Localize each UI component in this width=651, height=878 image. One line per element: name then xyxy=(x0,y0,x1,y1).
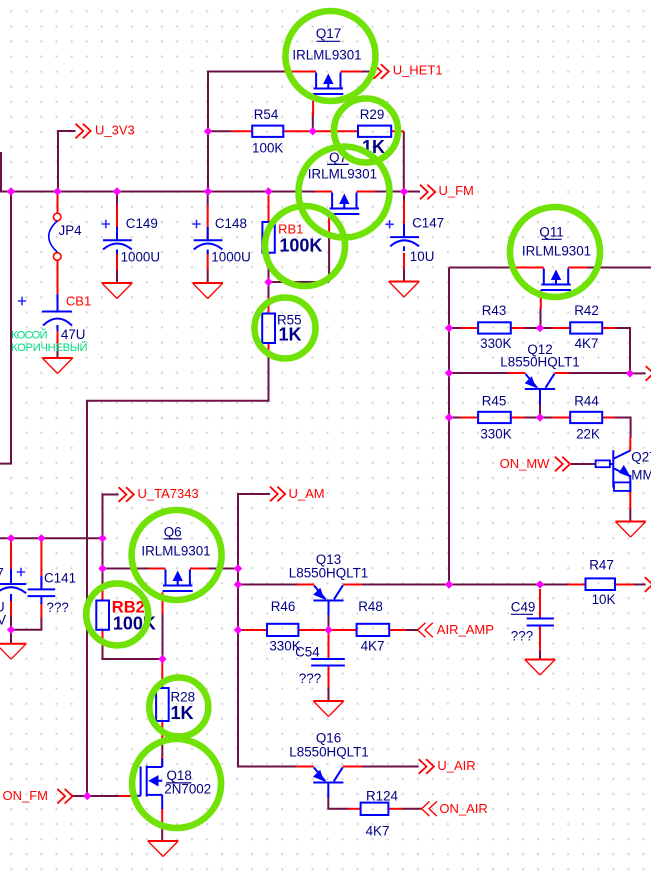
pin C141 top xyxy=(40,542,42,589)
capacitor C147 xyxy=(390,237,419,246)
wire left cap ground lead xyxy=(10,630,12,644)
svg-text:Q27: Q27 xyxy=(631,450,651,465)
svg-text:AIR_AMP: AIR_AMP xyxy=(437,622,494,637)
wire R45 right to mid junction xyxy=(524,417,540,419)
wire Q6 gate down to R28 xyxy=(162,613,164,663)
wire R42 left stub xyxy=(540,327,553,329)
node R43-R42 xyxy=(536,324,544,332)
pin R43 left xyxy=(460,327,478,329)
node Q12-collector xyxy=(626,369,634,377)
pin CB1 bottom xyxy=(57,330,59,346)
pin Q18 gate lead xyxy=(119,795,134,797)
svg-text:R48: R48 xyxy=(358,599,383,614)
node bus-RB1 xyxy=(264,187,272,195)
svg-text:RB1: RB1 xyxy=(278,222,303,237)
pin R54 left xyxy=(231,130,252,132)
pin R47 left xyxy=(568,584,586,586)
pin Q27 emitter lower xyxy=(629,492,631,509)
svg-text:10U: 10U xyxy=(410,249,435,264)
resistor R44 xyxy=(570,412,602,423)
port chevron U_TA7343 xyxy=(119,487,134,502)
svg-text:V: V xyxy=(0,613,6,628)
pin Q6 source xyxy=(148,568,166,570)
svg-text:330K: 330K xyxy=(480,336,511,351)
resistor R29 xyxy=(358,126,391,137)
svg-text:R47: R47 xyxy=(589,557,614,572)
svg-text:C49: C49 xyxy=(511,599,536,614)
resistor R55 xyxy=(262,314,275,344)
wire RB2 bottom to Q6 gate column xyxy=(103,645,163,659)
pin R48 right xyxy=(389,629,406,631)
wire R44 left stub xyxy=(540,417,553,419)
wire C148 top stub xyxy=(207,192,209,207)
annotation circle RB2 xyxy=(86,583,148,645)
mosfet Q18 xyxy=(134,758,162,809)
svg-text:R124: R124 xyxy=(366,788,399,803)
svg-text:ON_AIR: ON_AIR xyxy=(439,801,487,816)
transistor Q16 xyxy=(313,767,343,797)
wire U_3V3 tap xyxy=(58,131,76,192)
node rail-C141 xyxy=(37,534,45,542)
wire left edge stub xyxy=(0,152,2,192)
svg-text:КОРИЧНЕВЫЙ: КОРИЧНЕВЫЙ xyxy=(11,341,88,354)
svg-text:???: ??? xyxy=(511,628,533,643)
pin Q11 source xyxy=(510,267,544,269)
wire R43 left stub xyxy=(449,327,461,329)
port chevron ON_AIR xyxy=(422,802,437,817)
wire C148 bottom to ground xyxy=(207,269,209,283)
ground Q18 xyxy=(148,841,178,857)
svg-text:U_AM: U_AM xyxy=(289,486,325,501)
svg-text:C54: C54 xyxy=(295,644,320,659)
svg-text:Q6: Q6 xyxy=(164,525,182,540)
pin Q11 gate xyxy=(540,290,542,309)
pin Q7 drain xyxy=(357,191,376,193)
port chevron AIR_AMP xyxy=(418,623,433,638)
resistor RB2 xyxy=(96,601,109,630)
node rail-RB2col xyxy=(98,534,106,542)
pin Q7 gate xyxy=(328,214,330,234)
wire Q7 drain to U_FM junction xyxy=(374,191,404,193)
wire Q12 collector row to edge chevron xyxy=(630,372,646,374)
pin Q7 source xyxy=(315,191,332,193)
svg-text:IRLML9301: IRLML9301 xyxy=(141,544,210,559)
pin C49 bottom xyxy=(539,626,541,652)
node bus-C149 xyxy=(113,187,121,195)
pin Q12 collector xyxy=(555,372,570,374)
svg-text:22K: 22K xyxy=(576,426,600,441)
wire R43 right to mid junction xyxy=(524,327,540,329)
capacitor CB1 plus xyxy=(18,297,26,305)
pin R42 right xyxy=(602,327,615,329)
capacitor C148 plus xyxy=(192,220,200,228)
wire C147 bottom to ground xyxy=(403,268,405,282)
wire right bus column xyxy=(448,268,450,585)
wire C149 bottom to ground xyxy=(116,269,118,283)
node ON_FM xyxy=(83,792,91,800)
ground C149 xyxy=(102,283,132,299)
pin C148 top xyxy=(207,205,209,240)
annotation circle Q17 xyxy=(286,11,376,101)
svg-text:1K: 1K xyxy=(279,324,302,344)
pin C149 top xyxy=(116,205,118,240)
node Q13-emitter xyxy=(234,580,242,588)
wire Q16 collector to U_AIR xyxy=(361,766,419,768)
pin left cut cap top xyxy=(10,540,12,570)
transistor Q13 xyxy=(313,585,343,615)
wire R29 right corner down to U_FM junction xyxy=(403,131,405,191)
svg-text:U_FM: U_FM xyxy=(439,183,474,198)
pin C147 bottom xyxy=(403,253,405,269)
node R54-R29 xyxy=(309,127,317,135)
wire RB1 bottom to R55 top junction row xyxy=(269,267,330,298)
svg-text:IRLML9301: IRLML9301 xyxy=(308,166,377,181)
svg-text:???: ??? xyxy=(299,671,321,686)
wire Q17 gate down to R54-R29 junction xyxy=(312,112,314,131)
pin C147 top xyxy=(403,200,405,237)
node R45-left xyxy=(445,413,453,421)
node leftcaps-bottom xyxy=(7,626,15,634)
svg-text:100K: 100K xyxy=(252,140,283,155)
wire Q12 emitter row from column xyxy=(449,372,509,374)
node Q6-source xyxy=(98,564,106,572)
wire Q13 emitter row from column xyxy=(238,584,298,586)
port chevron U_AIR xyxy=(419,759,434,774)
wire Q17 drain to U_HET1 xyxy=(343,71,374,73)
wire Q6 drain to U_AM column xyxy=(208,568,238,570)
svg-text:ON_MW: ON_MW xyxy=(500,456,551,471)
pin R54 right / R29 left xyxy=(283,130,358,132)
wire U_FM junction to chevron xyxy=(404,191,420,193)
resistor R48 xyxy=(357,624,390,636)
svg-text:IRLML9301: IRLML9301 xyxy=(292,48,361,63)
node R43-left xyxy=(445,324,453,332)
svg-text:4K7: 4K7 xyxy=(575,336,599,351)
resistor R124 xyxy=(361,803,389,815)
svg-text:U_TA7343: U_TA7343 xyxy=(138,486,199,501)
pin R45 right xyxy=(511,417,525,419)
wire R45 left stub xyxy=(449,417,461,419)
node R46-left xyxy=(234,626,242,634)
resistor R54 xyxy=(252,126,283,137)
capacitor C141 xyxy=(28,589,56,604)
wire Q13 base to R46 row xyxy=(328,614,330,630)
wire Q18 source to ground xyxy=(161,824,163,841)
node bus-left xyxy=(7,187,15,195)
svg-text:C149: C149 xyxy=(126,216,158,231)
wire C54 lower to ground xyxy=(328,686,330,701)
wire Q7 gate down xyxy=(328,232,330,282)
capacitor C147 plus xyxy=(385,220,393,228)
annotation circle Q18 xyxy=(132,739,221,828)
resistor R46 xyxy=(267,624,298,636)
node RB1-R55 xyxy=(264,278,272,286)
svg-text:2N7002: 2N7002 xyxy=(164,782,211,797)
wire left rail xyxy=(0,537,103,539)
wire C49 lower to ground xyxy=(539,650,541,660)
wire R54 left xyxy=(208,130,231,132)
wire CB1 bottom to ground xyxy=(57,345,59,358)
wire Q6 source from rail junction xyxy=(103,568,149,570)
resistor R45 xyxy=(478,412,511,423)
pin Q18 source xyxy=(161,808,163,825)
wire left cap top stub xyxy=(10,538,12,543)
pin Q17 drain xyxy=(341,71,363,73)
node Q12-emitter xyxy=(445,369,453,377)
pin R44 right xyxy=(602,417,615,419)
node bus-C148 xyxy=(204,187,212,195)
svg-text:R42: R42 xyxy=(574,303,599,318)
capacitor C54 xyxy=(311,659,345,666)
node R45-R44 xyxy=(536,413,544,421)
pin Q16 collector xyxy=(343,766,362,768)
CIRCLES xyxy=(86,11,600,828)
pin RB1 top xyxy=(268,196,270,223)
svg-text:100K: 100K xyxy=(279,235,322,255)
wire R46 left stub xyxy=(238,629,245,631)
wire R44 right corner down to Q27 collector xyxy=(614,418,630,439)
capacitor C148 xyxy=(194,240,223,249)
mosfet Q6 xyxy=(163,570,193,592)
wire C141 top stub xyxy=(40,538,42,543)
annotation circle Q11 xyxy=(510,207,600,297)
pin C54 bottom xyxy=(328,666,330,688)
svg-text:U_HET1: U_HET1 xyxy=(393,63,443,78)
pin R47 right xyxy=(615,584,634,586)
pin C49 top xyxy=(539,589,541,619)
wire R124 right to ON_AIR xyxy=(401,808,422,810)
ground Q27 xyxy=(615,522,645,538)
capacitor CB1 xyxy=(42,294,72,331)
ground C147 xyxy=(389,282,419,298)
jumper JP4 xyxy=(53,213,61,260)
resistor RB1 xyxy=(262,222,274,253)
wire C141 bottom corner xyxy=(11,617,41,630)
transistor Q27 xyxy=(596,450,631,492)
svg-text:330K: 330K xyxy=(480,426,511,441)
svg-text:CB1: CB1 xyxy=(66,294,91,309)
pin R124 left xyxy=(348,808,361,810)
svg-text:4K7: 4K7 xyxy=(366,823,390,838)
pin Q6 drain xyxy=(190,568,209,570)
svg-text:L8550HQLT1: L8550HQLT1 xyxy=(500,355,579,370)
wire Q27 emitter to ground xyxy=(629,508,631,522)
annotation circle R28 xyxy=(149,678,208,737)
wire Q11 row left xyxy=(449,267,511,269)
wire top bus U_3V3 rail xyxy=(0,191,315,193)
port chevron ON_MW xyxy=(555,457,570,472)
node U_FM xyxy=(400,187,408,195)
wire R55 bottom to left column xyxy=(87,357,269,796)
pin R43 right xyxy=(511,327,525,329)
wire ON_MW to Q27 base resistor xyxy=(571,463,596,465)
mosfet Q11 xyxy=(541,269,571,291)
pin Q12 emitter xyxy=(508,372,526,374)
node RB2-R28 xyxy=(158,655,166,663)
pin JP4 top xyxy=(57,195,59,213)
svg-text:R45: R45 xyxy=(482,393,507,408)
pin R46 left xyxy=(244,629,267,631)
pin JP4 bottom / CB1 top xyxy=(57,260,59,295)
transistor Q12 xyxy=(525,374,555,404)
svg-text:10K: 10K xyxy=(592,592,616,607)
pin Q6 gate xyxy=(162,592,164,614)
pin RB2 bottom xyxy=(102,630,104,646)
pin R55 bottom xyxy=(268,343,270,358)
svg-text:C148: C148 xyxy=(215,216,247,231)
resistor R43 xyxy=(478,322,511,333)
svg-text:MMBT: MMBT xyxy=(631,467,651,482)
ground CB1 xyxy=(42,358,72,374)
mosfet Q7 xyxy=(329,193,359,215)
svg-text:47U: 47U xyxy=(61,327,86,342)
svg-text:Q16: Q16 xyxy=(316,730,341,745)
pin R42 left xyxy=(552,327,570,329)
pin R124 right xyxy=(388,808,402,810)
node R46-C54 xyxy=(324,626,332,634)
wire Q12 base down xyxy=(539,402,541,418)
ground C49 xyxy=(525,660,555,676)
wire Q11 gate down xyxy=(540,308,542,328)
pin R28 bottom xyxy=(161,721,163,739)
pin Q17 source xyxy=(284,71,316,73)
pin Q13 collector xyxy=(343,584,362,586)
capacitor C149 xyxy=(103,240,132,249)
op... mosfet Q17 xyxy=(313,73,343,95)
svg-text:C141: C141 xyxy=(44,570,76,585)
pin R28 top xyxy=(161,662,163,688)
annotation circle Q6 xyxy=(132,510,222,600)
pin Q17 gate xyxy=(312,95,314,117)
pin C54 top lead xyxy=(328,630,330,659)
svg-text:КОСОЙ: КОСОЙ xyxy=(11,329,48,342)
svg-text:4K7: 4K7 xyxy=(361,638,385,653)
pin R29 right xyxy=(391,130,404,132)
svg-text:JP4: JP4 xyxy=(59,223,83,238)
capacitor C49 xyxy=(527,619,554,626)
wire R48 right to AIR_AMP xyxy=(405,629,418,631)
port chevron U_FM xyxy=(420,185,435,200)
pin R45 left xyxy=(460,417,478,419)
svg-text:R44: R44 xyxy=(574,393,599,408)
capacitor cut-off left plus xyxy=(17,568,25,576)
annotation circle R55 xyxy=(255,298,316,359)
svg-text:1000U: 1000U xyxy=(121,249,160,264)
svg-text:R46: R46 xyxy=(271,599,296,614)
annotation circle R29 xyxy=(334,99,398,163)
wire Q11 drain to right edge xyxy=(586,267,651,269)
pin C141 bottom xyxy=(40,603,42,618)
svg-text:L8550HQLT1: L8550HQLT1 xyxy=(289,565,368,580)
pin Q16 emitter xyxy=(296,766,314,768)
svg-text:ON_FM: ON_FM xyxy=(3,788,49,803)
ground C148 xyxy=(193,283,223,299)
wire Q17 row from R54 column xyxy=(208,72,284,192)
wire left drop from bus xyxy=(0,192,11,464)
ground C54 xyxy=(313,701,343,717)
svg-text:Q17: Q17 xyxy=(316,26,341,41)
svg-text:L8550HQLT1: L8550HQLT1 xyxy=(289,744,368,759)
pin Q27 collector xyxy=(629,437,631,451)
pin Q18 drain xyxy=(161,756,163,767)
wire U_AM tap down column xyxy=(238,494,297,767)
capacitor lead stubs blue xyxy=(41,224,404,589)
svg-text:IRLML9301: IRLML9301 xyxy=(522,244,591,259)
wire R28 bottom to Q18 drain xyxy=(161,738,163,757)
annotation circle Q7 xyxy=(299,147,390,238)
port chevron U_HET1 xyxy=(374,64,389,79)
node bus-JP4 xyxy=(53,187,61,195)
pin C148 bottom xyxy=(207,252,209,270)
svg-text:???: ??? xyxy=(47,600,69,615)
svg-text:C147: C147 xyxy=(412,216,444,231)
capacitor C149 plus xyxy=(102,220,110,228)
wire left cap bottom xyxy=(10,615,12,630)
node rail-leftcap xyxy=(7,534,15,542)
svg-text:U_3V3: U_3V3 xyxy=(95,123,135,138)
port chevron right edge Q12 row xyxy=(646,366,651,381)
pin left cut cap bottom xyxy=(10,601,12,617)
node Q6-drain xyxy=(234,564,242,572)
wire Q13 collector row xyxy=(361,584,646,586)
port chevron ON_FM xyxy=(57,789,72,804)
resistor R28 xyxy=(156,688,169,721)
pin R55 top xyxy=(268,297,270,314)
svg-text:Q11: Q11 xyxy=(539,225,563,240)
port chevron U_3V3 xyxy=(76,124,91,139)
svg-text:1K: 1K xyxy=(171,703,194,723)
node R54-left xyxy=(204,127,212,135)
node Q13-collector xyxy=(445,580,453,588)
pin R46 right / C54 top xyxy=(298,629,328,631)
wire C147 top stub xyxy=(403,192,405,202)
wire Q16 base to R124 row xyxy=(328,795,349,809)
svg-text:U_AIR: U_AIR xyxy=(437,758,475,773)
wire C149 top stub xyxy=(116,192,118,207)
node C49-top xyxy=(536,580,544,588)
resistor R47 xyxy=(586,578,616,590)
port chevron U_AM xyxy=(270,487,285,502)
svg-text:R54: R54 xyxy=(254,107,279,122)
resistor R42 xyxy=(570,322,602,333)
ground left caps xyxy=(0,644,26,660)
svg-text:7: 7 xyxy=(0,566,4,581)
wire U_TA7343 tap down RB2 column xyxy=(103,495,119,587)
pin RB2 top xyxy=(102,585,104,601)
wire Q12 collector to corner xyxy=(568,372,630,374)
pin RB1 bottom xyxy=(268,253,270,268)
wire ON_FM row xyxy=(73,795,121,797)
pin R44 left xyxy=(552,417,570,419)
annotation circle RB1 xyxy=(265,206,345,286)
svg-text:R29: R29 xyxy=(360,107,385,122)
pin R48 left xyxy=(329,629,357,631)
pin C149 bottom xyxy=(116,252,118,270)
port chevron right edge R47 row xyxy=(645,577,651,592)
pin Q11 drain xyxy=(568,267,587,269)
svg-text:1000U: 1000U xyxy=(211,249,250,264)
wire R42 right corner down xyxy=(614,328,630,373)
svg-text:R43: R43 xyxy=(482,303,507,318)
capacitor cut-off left xyxy=(0,569,26,601)
wire R47 left from C49 junction xyxy=(540,584,568,586)
pin Q13 emitter xyxy=(297,584,314,586)
